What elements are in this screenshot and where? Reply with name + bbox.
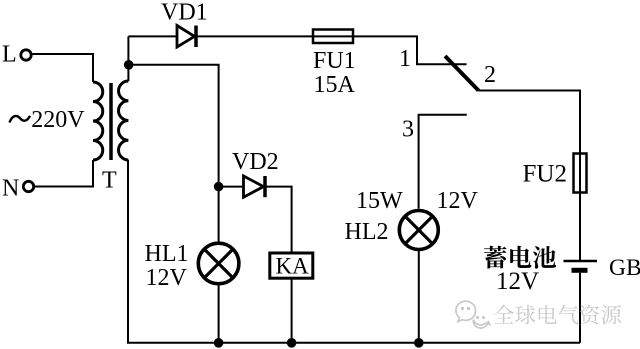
svg-text:FU1: FU1 — [313, 48, 356, 74]
svg-text:FU2: FU2 — [523, 161, 567, 188]
svg-text:12V: 12V — [496, 268, 539, 295]
wire KA to bottom rail — [291, 278, 293, 343]
transformer T primary winding — [93, 82, 103, 160]
svg-text:12V: 12V — [437, 188, 479, 214]
svg-text:12V: 12V — [146, 265, 188, 291]
svg-text:HL1: HL1 — [145, 241, 189, 267]
node A junction dot — [124, 60, 134, 70]
node B junction dot (VD2 tap) — [214, 182, 224, 192]
diode VD2 — [244, 176, 264, 197]
battery label char 池 — [533, 246, 556, 269]
label ~220V tilde — [10, 116, 31, 123]
wire battery to bottom rail — [579, 273, 581, 343]
svg-text:1: 1 — [399, 46, 411, 72]
wire VD2 branch — [219, 186, 244, 188]
battery label char 电 — [510, 246, 531, 268]
svg-text:N: N — [2, 176, 19, 202]
lamp HL2 — [399, 211, 438, 250]
relay coil KA box — [270, 253, 313, 278]
fuse FU2 — [574, 154, 587, 193]
svg-text:2: 2 — [484, 62, 496, 88]
battery GB positive plate — [564, 260, 598, 263]
svg-text:220V: 220V — [31, 107, 85, 133]
fuse FU1 — [313, 30, 353, 44]
wire HL2 to bottom rail — [418, 250, 420, 343]
junction dot KA bottom — [287, 338, 297, 348]
switch blade — [445, 56, 479, 91]
terminal N — [23, 181, 33, 191]
watermark logo — [456, 301, 490, 328]
wire switch terminal 2 to FU2 and battery — [479, 91, 581, 261]
transformer core — [109, 83, 113, 160]
svg-text:15W: 15W — [356, 188, 403, 214]
terminal L — [21, 50, 31, 60]
svg-text:KA: KA — [276, 253, 310, 278]
battery GB negative plate — [572, 268, 588, 273]
transformer T secondary winding — [119, 81, 129, 160]
wire primary bottom to N — [35, 160, 94, 187]
wire branch from node A to VD2 node — [129, 65, 219, 242]
svg-text:GB: GB — [609, 255, 640, 281]
junction dot HL1 bottom — [214, 338, 224, 348]
svg-text:T: T — [102, 168, 117, 194]
wire secondary top lead up to top rail corner — [127, 36, 129, 81]
battery label char 蓄 — [484, 246, 507, 269]
wire L to transformer primary top — [33, 54, 94, 82]
bottom rail wire — [128, 160, 580, 343]
watermark text — [494, 305, 621, 325]
wire top rail to switch terminal 1 — [128, 36, 466, 64]
svg-text:L: L — [2, 42, 17, 68]
lamp HL1 — [198, 243, 239, 284]
wire VD2 to relay KA — [265, 187, 292, 253]
diode VD1 — [177, 26, 195, 48]
svg-text:VD2: VD2 — [232, 149, 279, 175]
junction dot HL2 bottom — [414, 338, 424, 348]
wire HL1 to bottom rail — [218, 284, 220, 343]
svg-text:15A: 15A — [314, 72, 356, 98]
svg-text:VD1: VD1 — [161, 0, 208, 26]
wire switch terminal 3 to HL2 — [419, 115, 467, 209]
svg-text:HL2: HL2 — [345, 219, 389, 245]
svg-text:3: 3 — [402, 117, 414, 143]
